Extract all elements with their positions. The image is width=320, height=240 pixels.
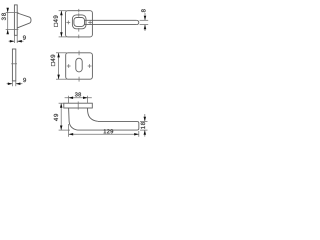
cross mark left h b bbox=[67, 65, 71, 67]
hub (rose collar) bbox=[72, 15, 86, 29]
label 129 bbox=[104, 129, 113, 133]
neck left outline + bend (plan) bbox=[69, 108, 78, 130]
dim38b arrow right bbox=[83, 97, 88, 100]
label square49 b bbox=[51, 55, 55, 66]
dim38 extension top bbox=[6, 11, 19, 13]
label 8 bbox=[141, 9, 145, 12]
dim18 extension top bbox=[140, 120, 148, 122]
dim9 extension left bbox=[13, 35, 15, 43]
centerline tick crossing hub top bbox=[78, 13, 80, 17]
dim49b arrow bottom bbox=[57, 75, 60, 80]
oval cylinder hole bbox=[76, 58, 82, 72]
dim129 extension right bbox=[138, 131, 140, 137]
lever bar right end (plan) bbox=[137, 121, 139, 130]
dim18 line below bbox=[144, 130, 146, 137]
dim49a extension bottom bbox=[59, 36, 67, 38]
dim38 dimension line bbox=[7, 8, 9, 34]
dim49a arrow top bbox=[60, 11, 63, 16]
dim129 arrow right bbox=[134, 133, 139, 136]
lever bar bottom edge (front) bbox=[85, 24, 137, 26]
cross mark right h b bbox=[88, 65, 92, 67]
dim49a arrow bottom bbox=[60, 32, 63, 37]
cross mark right v b bbox=[89, 64, 91, 68]
dim49c arrow top bbox=[60, 103, 63, 108]
dim49c extension top bbox=[59, 102, 65, 104]
centerline tick bottom b bbox=[78, 77, 80, 82]
rosette slab (plan) bbox=[64, 103, 93, 108]
dim9b extension right bbox=[15, 81, 17, 86]
cross mark left h bbox=[66, 21, 70, 23]
dim129 dimension line bbox=[69, 133, 139, 135]
dim9b line right shaft bbox=[16, 83, 23, 85]
centerline tick plan bbox=[77, 102, 79, 110]
dim49b dimension line bbox=[58, 53, 60, 79]
dim18 line above bbox=[144, 114, 146, 121]
dim49c arrow bottom bbox=[60, 126, 63, 131]
handle grip cone profile bbox=[17, 13, 31, 28]
label 9 b bbox=[23, 78, 26, 82]
dim38 arrow top bbox=[6, 8, 9, 13]
dim129 extension left bbox=[68, 124, 70, 137]
label 18 bbox=[141, 122, 145, 129]
lever bar top edge (plan) bbox=[98, 120, 137, 122]
rosette edge-on slab (side view) bbox=[14, 5, 17, 35]
square rosette front bbox=[66, 11, 93, 37]
dim38b extension right bbox=[87, 96, 89, 104]
lever bar bottom edge (plan) bbox=[78, 129, 138, 131]
dim38b extension left bbox=[68, 96, 70, 104]
centerline tick above hub bbox=[78, 9, 80, 13]
dim9 extension right bbox=[16, 35, 18, 43]
label 38 b bbox=[75, 92, 81, 96]
label 49 bbox=[54, 114, 58, 121]
dim9 arrow left bbox=[10, 40, 15, 43]
cross mark right v bbox=[89, 21, 91, 25]
dim129 arrow left bbox=[69, 133, 74, 136]
dim49b extension top bbox=[56, 52, 67, 54]
dim38b arrow left bbox=[69, 97, 74, 100]
dim49c extension bottom bbox=[59, 129, 70, 131]
neck right outline + bend (plan) bbox=[87, 108, 97, 121]
key rosette edge-on slab bbox=[12, 49, 15, 81]
dim8 arrow top bbox=[144, 16, 147, 21]
dim8 line below bbox=[144, 25, 146, 31]
dim49b arrow top bbox=[57, 53, 60, 58]
dim8 extension top bbox=[140, 19, 149, 21]
dim18 extension bottom bbox=[140, 129, 148, 131]
dim49a extension top bbox=[59, 10, 67, 12]
dim49b extension bottom bbox=[56, 78, 67, 80]
dim9b arrow right bbox=[16, 82, 21, 85]
label square49 a bbox=[53, 16, 57, 27]
keyhole centerline tick bbox=[11, 63, 17, 65]
dim38 arrow bottom bbox=[6, 30, 9, 35]
centerline tick crossing hub bottom bbox=[78, 28, 80, 32]
dim8 arrow bottom bbox=[144, 25, 147, 30]
dim49a dimension line bbox=[60, 11, 62, 37]
cross mark left v b bbox=[68, 64, 70, 68]
dim9b extension left bbox=[11, 81, 13, 86]
dim9 line right shaft bbox=[17, 40, 23, 42]
label 38 bbox=[2, 13, 6, 20]
lever bar top edge (front) bbox=[85, 19, 137, 21]
dim18 arrow top bbox=[144, 117, 147, 122]
dim38 extension bottom bbox=[6, 29, 19, 31]
cross mark right h bbox=[88, 21, 92, 23]
dim8 line above bbox=[144, 13, 146, 20]
square key rosette front bbox=[66, 53, 93, 79]
dim38b dimension line bbox=[65, 97, 92, 99]
dim9b line left shaft bbox=[7, 83, 13, 85]
centerline tick top b bbox=[78, 51, 80, 56]
dim9 line left shaft bbox=[9, 40, 15, 42]
lever rounded tip (front) bbox=[136, 20, 139, 24]
dim18 arrow bottom bbox=[144, 130, 147, 135]
label 9 bbox=[23, 35, 26, 39]
dim49c dimension line bbox=[60, 103, 62, 130]
dim8 extension bottom bbox=[140, 24, 149, 26]
grip neck cross-section bbox=[74, 18, 85, 27]
dim9 arrow right bbox=[17, 40, 22, 43]
cross mark left v bbox=[67, 21, 69, 25]
dim9b arrow left bbox=[8, 82, 13, 85]
centerline tick below hub bbox=[78, 35, 80, 39]
